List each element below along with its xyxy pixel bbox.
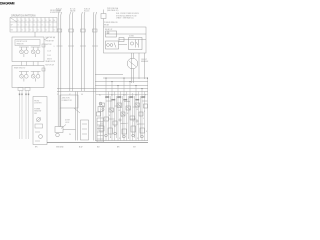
svg-text:x: x	[46, 24, 47, 26]
svg-text:B: B	[127, 113, 128, 115]
svg-text:U: U	[26, 20, 28, 22]
svg-text:U: U	[34, 20, 36, 22]
svg-text:M: M	[54, 20, 56, 22]
svg-text:2 L-R: 2 L-R	[47, 55, 52, 57]
svg-text:WINDOW: WINDOW	[34, 111, 41, 113]
svg-text:O: O	[46, 29, 48, 31]
svg-text:x: x	[38, 24, 39, 26]
svg-text:IF5: IF5	[35, 146, 37, 148]
svg-text:P/W FUSE 30A: P/W FUSE 30A	[107, 7, 119, 10]
svg-text:SW: SW	[34, 113, 37, 115]
svg-text:GROUND: GROUND	[56, 146, 64, 148]
svg-text:B-L: B-L	[99, 95, 101, 97]
svg-text:L: L	[127, 123, 128, 125]
svg-text:x: x	[18, 29, 19, 31]
svg-text:D: D	[22, 20, 24, 22]
svg-text:B: B	[109, 115, 110, 117]
svg-text:L-R: L-R	[118, 110, 120, 112]
svg-text:IG7: IG7	[133, 146, 136, 148]
svg-text:B-W L-R: B-W L-R	[56, 8, 63, 10]
svg-text:O: O	[18, 24, 20, 26]
svg-text:FRONT DOOR: FRONT DOOR	[17, 41, 29, 43]
svg-text:JUNCTION: JUNCTION	[62, 98, 71, 100]
svg-text:D: D	[38, 20, 40, 22]
svg-text:W-B : FROM POWER SOURCE: W-B : FROM POWER SOURCE	[116, 13, 139, 15]
svg-text:B: B	[145, 95, 146, 97]
svg-text:O: O	[50, 24, 52, 26]
svg-text:O: O	[22, 29, 24, 31]
svg-text:3: 3	[54, 46, 55, 48]
svg-text:3A: 3A	[81, 93, 83, 96]
svg-text:UP: UP	[11, 24, 13, 26]
svg-text:MOTOR LH: MOTOR LH	[46, 64, 55, 66]
svg-text:SYSTEM (CURRENT FLOW: SYSTEM (CURRENT FLOW	[116, 15, 137, 17]
svg-text:FRONT: FRONT	[34, 101, 39, 103]
svg-text:x: x	[26, 29, 27, 31]
svg-text:2: 2	[133, 121, 134, 123]
svg-text:O: O	[26, 24, 28, 26]
svg-text:DIAGRAM: DIAGRAM	[0, 1, 15, 5]
svg-text:P6: P6	[69, 134, 71, 136]
svg-text:W-B L-W: W-B L-W	[84, 8, 91, 10]
svg-text:O: O	[42, 24, 44, 26]
svg-text:DOWN: DOWN	[129, 36, 134, 38]
svg-text:POWER: POWER	[34, 109, 41, 111]
svg-text:D: D	[30, 20, 32, 22]
svg-text:FRONT RH: FRONT RH	[46, 40, 55, 42]
svg-text:RELAY UP: RELAY UP	[105, 28, 112, 31]
svg-text:O: O	[54, 29, 56, 31]
svg-text:x: x	[42, 29, 43, 31]
svg-text:OPERATION PATTERN: OPERATION PATTERN	[11, 14, 36, 17]
svg-text:CIRCUIT: CIRCUIT	[141, 59, 147, 61]
svg-text:WINDOW: WINDOW	[17, 44, 24, 46]
svg-text:4: 4	[121, 116, 122, 118]
svg-text:BR: BR	[117, 146, 120, 148]
svg-text:POWER WINDOW: POWER WINDOW	[104, 22, 118, 24]
svg-text:B: B	[128, 138, 129, 140]
svg-text:U: U	[18, 20, 20, 22]
svg-text:A: A	[50, 19, 52, 22]
svg-text:O: O	[38, 29, 40, 31]
svg-text:B: B	[146, 131, 147, 133]
svg-text:DOOR RH: DOOR RH	[34, 103, 41, 105]
svg-text:1B: 1B	[57, 94, 59, 96]
svg-text:B-Y: B-Y	[137, 124, 139, 126]
svg-text:x: x	[30, 24, 31, 26]
svg-text:x: x	[22, 24, 23, 26]
svg-text:L-R: L-R	[105, 97, 107, 99]
svg-text:LOCK: LOCK	[65, 122, 70, 124]
svg-text:B-Y L-B: B-Y L-B	[70, 8, 75, 10]
svg-text:L-W: L-W	[100, 123, 103, 125]
svg-text:CONNECTOR: CONNECTOR	[62, 100, 73, 102]
svg-text:B: B	[144, 111, 145, 113]
svg-text:MOTOR: MOTOR	[46, 44, 53, 46]
svg-text:6: 6	[143, 118, 144, 120]
svg-text:DOOR: DOOR	[65, 120, 71, 122]
svg-text:B-Y: B-Y	[111, 95, 113, 97]
svg-text:IG SW: IG SW	[56, 10, 61, 12]
svg-text:REAR WINDOW: REAR WINDOW	[14, 67, 26, 70]
svg-text:B: B	[110, 137, 111, 139]
svg-text:x: x	[34, 29, 35, 31]
svg-text:B-W: B-W	[123, 95, 126, 97]
svg-text:GND B: GND B	[47, 59, 52, 61]
svg-text:O: O	[30, 29, 32, 31]
svg-text:B-W: B-W	[79, 146, 83, 148]
svg-text:L-Y: L-Y	[141, 97, 143, 99]
svg-text:DN: DN	[11, 29, 14, 31]
svg-text:L-B: L-B	[117, 97, 119, 99]
svg-text:O: O	[34, 24, 36, 26]
svg-text:1 L-W: 1 L-W	[47, 50, 52, 52]
svg-text:IE2: IE2	[97, 146, 100, 148]
svg-text:B-L: B-L	[114, 126, 116, 128]
svg-text:U: U	[42, 20, 44, 22]
svg-text:L-B: L-B	[136, 109, 138, 111]
svg-text:B-R: B-R	[135, 95, 137, 97]
svg-text:D: D	[46, 20, 48, 22]
